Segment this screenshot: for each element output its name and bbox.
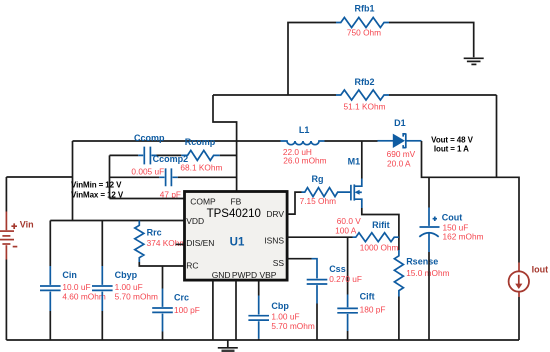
op-amp U1 TPS40210 IC body xyxy=(185,192,288,281)
svg-text:Rg: Rg xyxy=(312,174,324,184)
DIS/EN stub xyxy=(176,243,185,245)
wire DRV jog xyxy=(287,192,301,214)
svg-text:10.0 uF: 10.0 uF xyxy=(62,282,90,292)
transistor M1 (NMOS) xyxy=(351,179,362,209)
svg-text:TPS40210: TPS40210 xyxy=(207,208,261,220)
wire Rfb2 line xyxy=(213,94,336,96)
svg-text:1.00 uF: 1.00 uF xyxy=(271,312,299,322)
wire M1 source route xyxy=(362,208,399,250)
capacitor Cbp (VBP pin) xyxy=(248,281,269,341)
svg-text:SS: SS xyxy=(273,258,285,268)
svg-text:100 pF: 100 pF xyxy=(174,305,200,315)
ground (bottom) xyxy=(218,340,238,351)
capacitor Crc xyxy=(152,266,173,340)
svg-text:7.15 Ohm: 7.15 Ohm xyxy=(300,196,337,206)
svg-text:ISNS: ISNS xyxy=(264,235,284,245)
inductor L1 xyxy=(281,141,325,145)
current source Iout xyxy=(509,263,529,341)
svg-text:Rfb2: Rfb2 xyxy=(355,77,375,87)
svg-text:RC: RC xyxy=(186,260,198,270)
svg-text:Cout: Cout xyxy=(442,213,463,223)
wire Rfb1 loop left+right xyxy=(288,23,336,96)
svg-text:750 Ohm: 750 Ohm xyxy=(347,27,381,37)
svg-text:L1: L1 xyxy=(299,125,310,135)
svg-text:FB: FB xyxy=(231,196,242,206)
wire left input column xyxy=(6,176,72,178)
wire COMP pin line xyxy=(110,198,185,200)
svg-text:Vout = 48 V: Vout = 48 V xyxy=(431,136,473,145)
svg-text:162 mOhm: 162 mOhm xyxy=(443,232,484,242)
svg-text:Iout = 1 A: Iout = 1 A xyxy=(434,144,469,153)
svg-text:100 A: 100 A xyxy=(335,226,357,236)
svg-text:VDD: VDD xyxy=(186,216,204,226)
capacitor Cift xyxy=(337,237,358,340)
svg-text:DIS/EN: DIS/EN xyxy=(186,238,214,248)
wire bottom rail xyxy=(6,339,519,341)
diode D1 (schottky) xyxy=(378,133,422,148)
svg-text:GND: GND xyxy=(212,270,231,280)
svg-text:Rsense: Rsense xyxy=(406,256,438,266)
resistor Rifit xyxy=(353,233,399,242)
svg-text:5.70 mOhm: 5.70 mOhm xyxy=(271,321,314,331)
svg-text:Rifit: Rifit xyxy=(372,220,390,230)
resistor Rfb1 xyxy=(336,18,389,28)
svg-text:PWPD: PWPD xyxy=(232,270,257,280)
svg-text:0.270 uF: 0.270 uF xyxy=(329,274,362,284)
wire comp branch B xyxy=(110,176,237,178)
wire GND pin xyxy=(212,281,214,341)
svg-text:Rcomp: Rcomp xyxy=(185,137,216,147)
svg-text:180 pF: 180 pF xyxy=(360,304,386,314)
capacitor Cbyp xyxy=(92,221,113,341)
svg-text:1000 Ohm: 1000 Ohm xyxy=(360,242,399,252)
svg-text:4.60 mOhm: 4.60 mOhm xyxy=(62,292,105,302)
svg-text:Cbp: Cbp xyxy=(271,301,289,311)
svg-text:Ccomp: Ccomp xyxy=(134,133,165,143)
wire ISNS line xyxy=(287,236,352,238)
svg-text:374 KOhm: 374 KOhm xyxy=(147,238,187,248)
svg-text:U1: U1 xyxy=(230,237,245,249)
svg-text:26.0 mOhm: 26.0 mOhm xyxy=(283,155,326,165)
svg-text:M1: M1 xyxy=(348,157,361,167)
wire VIN rail xyxy=(73,140,281,142)
svg-text:5.70 mOhm: 5.70 mOhm xyxy=(115,292,158,302)
wire Rfb2 right vertical xyxy=(496,95,498,177)
svg-text:VinMin = 12 V: VinMin = 12 V xyxy=(71,181,122,190)
svg-text:COMP: COMP xyxy=(190,196,216,206)
voltage source Vin (battery) xyxy=(0,212,14,260)
svg-text:DRV: DRV xyxy=(266,209,284,219)
capacitor Ccomp2 xyxy=(159,168,177,186)
wire M1 drain to rail xyxy=(361,141,363,179)
svg-text:60.0 V: 60.0 V xyxy=(337,216,361,226)
wire VDD rail xyxy=(50,220,184,222)
svg-text:Cift: Cift xyxy=(360,291,375,301)
svg-text:1.00 uF: 1.00 uF xyxy=(115,282,143,292)
svg-text:51.1 KOhm: 51.1 KOhm xyxy=(344,101,386,111)
wire PWPD pin xyxy=(235,281,237,341)
resistor Rg xyxy=(302,188,351,197)
svg-text:0.005 uF: 0.005 uF xyxy=(131,166,164,176)
COMP network vertical xyxy=(109,155,111,198)
svg-text:Cin: Cin xyxy=(62,270,77,280)
capacitor Css (SS pin) xyxy=(287,259,327,340)
capacitor Cout (polarized) xyxy=(419,177,439,340)
svg-text:20.0 A: 20.0 A xyxy=(387,158,411,168)
svg-text:Crc: Crc xyxy=(174,292,189,302)
capacitor Ccomp xyxy=(138,147,156,165)
svg-text:D1: D1 xyxy=(394,118,406,128)
svg-text:Cbyp: Cbyp xyxy=(115,270,138,280)
svg-text:Rfb1: Rfb1 xyxy=(355,3,375,13)
ground (top right) xyxy=(464,58,484,64)
svg-text:Iout: Iout xyxy=(532,264,549,274)
wire comp branch A xyxy=(110,154,237,156)
svg-text:Rrc: Rrc xyxy=(147,228,162,238)
wire input vertical to VDD rail xyxy=(72,141,74,221)
resistor Rsense xyxy=(394,250,403,340)
capacitor Cin xyxy=(40,221,61,341)
svg-text:Css: Css xyxy=(329,264,346,274)
svg-text:Ccomp2: Ccomp2 xyxy=(153,154,189,164)
svg-text:VBP: VBP xyxy=(259,270,276,280)
svg-text:Vin: Vin xyxy=(20,220,34,230)
svg-text:15.0 mOhm: 15.0 mOhm xyxy=(406,268,449,278)
wire FB net (Rfb2 to FB pin) xyxy=(213,95,237,192)
resistor Rfb2 xyxy=(336,90,389,100)
resistor Rcomp xyxy=(181,150,219,160)
resistor Rrc xyxy=(135,221,185,267)
wire output node xyxy=(422,141,520,263)
